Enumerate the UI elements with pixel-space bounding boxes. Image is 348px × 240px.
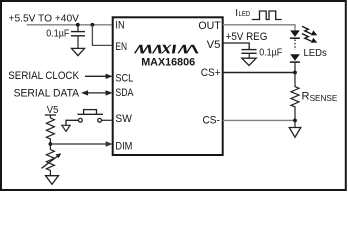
svg-text:0.1µF: 0.1µF [259, 47, 282, 58]
wire DIM arrow [50, 141, 112, 146]
svg-text:+5.5V TO +40V: +5.5V TO +40V [9, 14, 80, 25]
svg-text:V5: V5 [207, 39, 221, 51]
svg-text:SCL: SCL [115, 72, 133, 84]
svg-text:SDA: SDA [115, 87, 134, 99]
LED emission arrows [302, 26, 317, 42]
junction dot CS+ node [293, 71, 297, 75]
svg-text:MAX16806: MAX16806 [141, 57, 195, 69]
svg-text:SERIAL DATA: SERIAL DATA [14, 87, 80, 99]
ground (C2) [242, 58, 256, 65]
border frame [1, 1, 346, 190]
junction dot at EN branch [91, 23, 95, 27]
capacitor C2 0.1uF [241, 50, 256, 59]
potentiometer R2 [42, 144, 62, 176]
wire S1 to SW pin [102, 119, 112, 121]
svg-text:SW: SW [115, 113, 131, 125]
junction dot CS- node [293, 119, 297, 123]
svg-text:EN: EN [115, 41, 127, 53]
wire EN branch [92, 25, 111, 46]
svg-text:SERIAL CLOCK: SERIAL CLOCK [8, 70, 79, 82]
capacitor C1 0.1uF [71, 25, 85, 49]
wire OUT to LED string [223, 25, 295, 31]
svg-text:CS+: CS+ [201, 67, 221, 79]
svg-text:CS-: CS- [203, 115, 221, 127]
wire CS- to sense node [223, 119, 295, 121]
svg-text:LED: LED [239, 9, 251, 18]
resistor R1 (V5 pullup) [46, 118, 54, 143]
svg-text:SENSE: SENSE [310, 94, 338, 103]
wire to ground [294, 120, 296, 127]
wire SCL arrow [85, 74, 113, 79]
IC U1 MAX16806 [113, 17, 223, 155]
ground (RSENSE) [289, 128, 301, 138]
junction dot at C1 branch [76, 23, 80, 27]
svg-text:IN: IN [115, 20, 124, 32]
svg-text:DIM: DIM [115, 141, 132, 153]
LED D2 [290, 54, 300, 72]
ground (S1) [62, 125, 70, 131]
ground (C1) [72, 48, 85, 55]
svg-text:R: R [302, 91, 310, 103]
svg-text:OUT: OUT [198, 20, 221, 32]
wire SDA double arrow [81, 90, 113, 95]
wire VIN rail to IN pin [27, 24, 112, 26]
svg-text:+5V REG: +5V REG [226, 31, 268, 43]
svg-text:V5: V5 [47, 105, 59, 116]
svg-text:LEDs: LEDs [304, 48, 327, 59]
resistor RSENSE [291, 73, 299, 121]
LED D1 [290, 30, 300, 38]
svg-text:0.1µF: 0.1µF [46, 28, 69, 39]
logo MAXIM [134, 45, 199, 54]
wire dashed (more LEDs) [294, 40, 296, 51]
node V5 supply (left) [45, 105, 59, 118]
ground (R2) [46, 176, 59, 185]
wire CS+ to sense node [223, 72, 295, 74]
junction dot DIM node [49, 142, 53, 146]
wire V5 to C2 [223, 43, 250, 49]
waveform pulse icon [252, 11, 282, 20]
pushbutton switch S1 [66, 110, 103, 126]
